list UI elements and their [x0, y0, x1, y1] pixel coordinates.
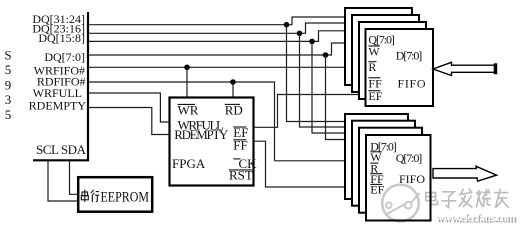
node WRFIFO# junction [184, 65, 190, 71]
upper FIFO stack back chip 1 [345, 8, 412, 85]
svg-text:EEPROM: EEPROM [101, 189, 150, 205]
wire DQ[31:24] branch to lower FIFO [287, 25, 346, 122]
wire DQ[7:0] branch to lower FIFO [326, 55, 367, 140]
FPGA pin label WR (active low) [178, 102, 199, 117]
watermark logo pen [386, 193, 420, 214]
lower FIFO pin label W (active low) [370, 150, 382, 164]
node DQ[7:0] junction [323, 52, 329, 58]
FPGA pin label FF (active low) [233, 137, 247, 152]
svg-text:5: 5 [5, 62, 12, 77]
wire WRFIFO# [89, 66, 366, 68]
lower FIFO U3 front chip [366, 135, 431, 221]
node DQ[15:8] junction [309, 39, 315, 45]
FPGA U1 box [170, 98, 254, 186]
wire DQ[15:8] [89, 31, 359, 42]
FPGA pin label EF (active low) [233, 125, 248, 140]
upper FIFO stack back chip 3 [359, 22, 426, 99]
upper FIFO pin label R (active low) [368, 60, 376, 74]
watermark text dianzifashaoyou [426, 189, 509, 208]
pin labels of S5935 [29, 12, 87, 113]
wire RDEMPTY [89, 108, 170, 135]
output arrow from lower FIFO [433, 166, 497, 181]
EEPROM label chinese chuan (serial) [81, 190, 88, 203]
EEPROM label chinese xing (row) [91, 190, 99, 202]
svg-text:5: 5 [5, 107, 12, 122]
wire FPGA FF [254, 141, 345, 187]
wire DQ[31:24] [89, 17, 345, 25]
svg-text:FIFO: FIFO [398, 76, 426, 90]
wire DQ[15:8] branch to lower FIFO [312, 41, 359, 133]
svg-text:W: W [368, 45, 380, 59]
wire RDFIFO# [89, 82, 275, 161]
svg-text:Q[7:0]: Q[7:0] [396, 151, 423, 165]
glyph shao [476, 189, 490, 206]
svg-text:SCL SDA: SCL SDA [36, 142, 87, 157]
wire WRFULL [89, 93, 170, 122]
glyph you [495, 189, 509, 207]
glyph dian [426, 190, 438, 205]
wire WR pin of FPGA [186, 67, 188, 97]
chip label S5935 [4, 48, 11, 122]
watermark logo circle [382, 185, 419, 222]
FPGA pin label RD (active low) [225, 102, 243, 117]
svg-text:D[7:0]: D[7:0] [396, 48, 423, 62]
wire SCL to EEPROM [48, 161, 79, 201]
S5935 chip bottom edge [33, 159, 89, 161]
S5935 chip right edge [87, 12, 89, 161]
node DQ[23:16] junction [297, 31, 303, 37]
wire RD pin of FPGA [232, 82, 234, 98]
upper FIFO stack back chip 2 [352, 15, 419, 92]
FPGA pin label RST (active low) [229, 168, 253, 183]
lower FIFO pin label FF (active low) [370, 172, 384, 186]
svg-text:RDEMPTY: RDEMPTY [174, 127, 229, 142]
upper FIFO pin label W (active low) [368, 45, 380, 59]
input arrow into upper FIFO [433, 62, 495, 75]
glyph fa [459, 189, 472, 207]
node DQ[31:24] junction [284, 22, 290, 28]
node RDFIFO# junction [230, 79, 236, 85]
svg-text:RDEMPTY: RDEMPTY [29, 99, 87, 113]
lower FIFO stack back chip 3 [359, 128, 422, 213]
wire DQ[7:0] [89, 43, 366, 55]
lower FIFO stack back chip 2 [352, 121, 415, 206]
glyph zi [442, 192, 456, 208]
upper FIFO pin label FF (active low) [368, 76, 382, 90]
lower FIFO stack back chip 1 [345, 114, 408, 199]
serial EEPROM box [78, 177, 152, 212]
lower FIFO pin label R (active low) [370, 161, 378, 175]
svg-text:S: S [4, 48, 11, 63]
lower FIFO pin label EF (active low) [370, 183, 384, 197]
svg-text:FPGA: FPGA [172, 156, 206, 171]
upper FIFO pin label EF (active low) [368, 89, 382, 103]
svg-text:R: R [368, 60, 376, 74]
svg-text:DQ[15:8]: DQ[15:8] [38, 31, 85, 45]
svg-text:DQ[7:0]: DQ[7:0] [44, 50, 85, 64]
svg-text:www.elecfans.com: www.elecfans.com [436, 212, 516, 224]
wire SDA to EEPROM [70, 161, 80, 194]
svg-text:9: 9 [5, 77, 12, 92]
wire FPGA EF to upper FIFO EF [254, 95, 366, 128]
wire DQ[23:16] branch to lower FIFO [300, 33, 353, 127]
watermark group [382, 185, 517, 226]
svg-text:3: 3 [5, 92, 12, 107]
wire upper-lower FIFO W link [275, 160, 367, 162]
upper FIFO U2 front chip [366, 29, 434, 106]
wire DQ[23:16] [89, 23, 352, 33]
